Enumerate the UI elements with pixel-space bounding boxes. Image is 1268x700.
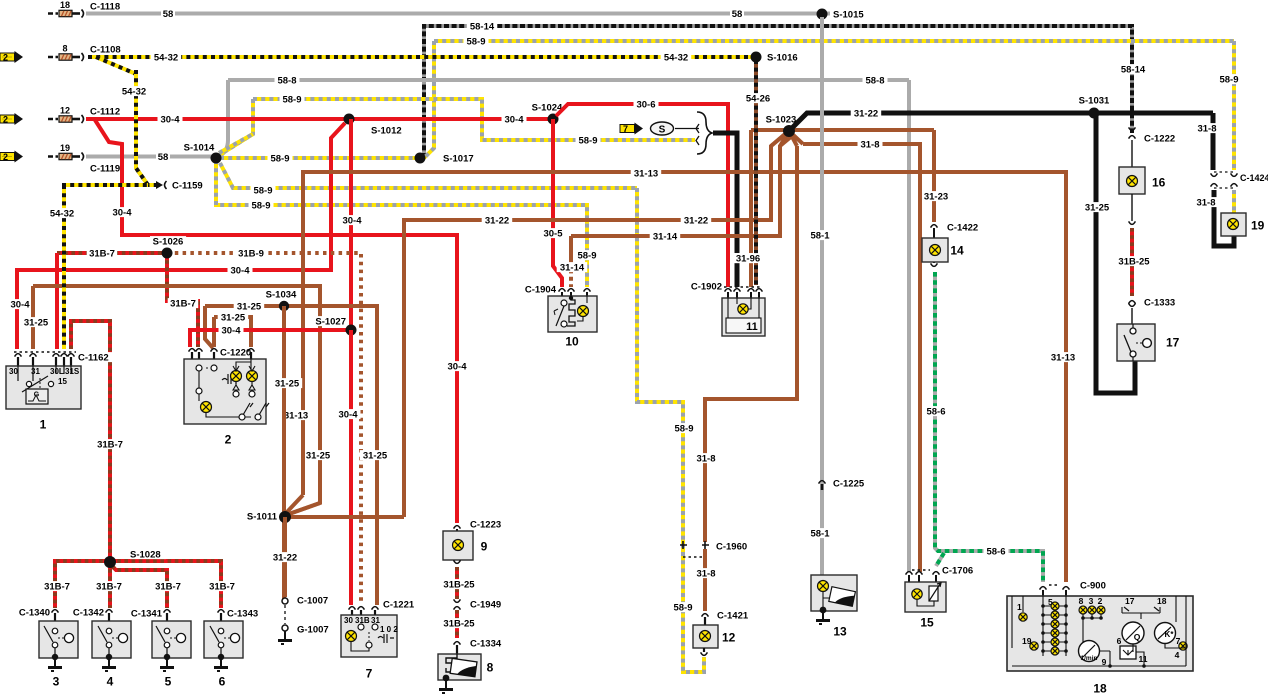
svg-text:58-9: 58-9 [674,423,693,434]
svg-text:31-13: 31-13 [1051,352,1075,363]
wire 31-22 below S-1011 to G-1007 [283,517,287,597]
lamp component 16 [1119,167,1145,194]
svg-text:31-14: 31-14 [653,231,678,242]
svg-text:19: 19 [60,143,70,153]
svg-text:58-1: 58-1 [810,528,830,539]
wire 54-26 S-1016 to component 11 pin4 [754,60,758,285]
splice S-1017 [415,153,426,164]
svg-text:58-6: 58-6 [986,546,1005,557]
lamp component 19 [1221,213,1246,236]
svg-text:58-8: 58-8 [277,75,296,86]
svg-text:9: 9 [481,539,488,553]
svg-text:31-25: 31-25 [363,450,388,461]
connector C-1343 [218,610,225,613]
svg-text:8: 8 [487,660,494,674]
connector C-1118 fuse 18 [48,12,58,15]
svg-text:C-1949: C-1949 [470,599,501,610]
wire 30-4 red main [86,117,556,121]
svg-text:S-1023: S-1023 [766,114,797,125]
sender S ellipse [651,122,674,135]
svg-text:K*: K* [1165,630,1175,639]
svg-text:12: 12 [60,106,70,116]
svg-text:54-32: 54-32 [122,86,146,97]
lighting switch component 2 [184,359,266,424]
svg-text:31-8: 31-8 [696,568,715,579]
svg-text:C-1422: C-1422 [947,222,978,233]
svg-text:C-1342: C-1342 [73,607,104,618]
wire 58-9 to component 10 (y205) [216,160,587,287]
svg-text:S-1034: S-1034 [266,289,297,300]
svg-text:2: 2 [1098,596,1103,606]
connector C-1341 [164,610,171,613]
svg-text:17: 17 [1125,596,1135,606]
svg-text:31B-7: 31B-7 [155,581,181,592]
wire 31-25 S-1031 to component 17 [1096,113,1135,393]
svg-text:S-1015: S-1015 [833,9,864,20]
wire 31B-7 red/brown row [57,251,167,255]
svg-text:31-22: 31-22 [684,215,708,226]
svg-text:58-9: 58-9 [1219,74,1238,85]
door switch component 3 [54,613,56,621]
page arrow 2 row2 [0,53,15,61]
svg-text:C-1960: C-1960 [716,541,747,552]
svg-text:1: 1 [1017,602,1022,612]
wire 31-14 to component 10 [571,136,792,236]
svg-text:10: 10 [565,334,579,348]
svg-text:S-1028: S-1028 [130,549,161,560]
svg-text:5: 5 [165,674,172,688]
svg-text:C-1341: C-1341 [131,608,163,619]
splice S-1024 [548,114,559,125]
svg-text:31B-7: 31B-7 [170,298,196,309]
svg-text:30-4: 30-4 [342,215,362,226]
svg-text:30-4: 30-4 [447,361,467,372]
svg-text:30-4: 30-4 [338,409,358,420]
wire 31-25 y286 [33,286,320,514]
instrument illumination component 13 [811,575,857,611]
svg-text:30-4: 30-4 [112,207,132,218]
svg-text:31-25: 31-25 [24,317,49,328]
door switch component 6 [220,613,222,621]
wire 31-25 y306 via S-1034 [205,306,377,605]
svg-text:31-8: 31-8 [860,139,879,150]
svg-text:4: 4 [107,674,114,688]
wire 58-6 green to component 15 and cluster [935,272,1043,582]
svg-text:C-1334: C-1334 [470,638,502,649]
svg-text:31-25: 31-25 [221,312,246,323]
splice S-1014 fan NE diagonal [219,134,253,153]
connector C-1902 [724,286,762,288]
wire 31-23 down to component 14 [932,130,936,222]
wire 58-1 gray S-1015 to component 13 [820,17,824,575]
svg-text:58-8: 58-8 [865,75,884,86]
svg-text:3: 3 [1089,596,1094,606]
wire 58 gray row4 [86,155,213,159]
svg-text:30L: 30L [50,367,64,376]
svg-text:58-9: 58-9 [253,185,272,196]
hazard switch component 7 [341,615,397,657]
connector C-1949 [454,599,461,602]
wire 31B-9 brown dashed to component 7 [167,253,361,605]
svg-text:6: 6 [1117,636,1122,646]
svg-text:C-1162: C-1162 [78,352,109,363]
wire 31B-25 component 16 to C-1333 [1131,194,1133,221]
wire 54-32 branch to C-1159 / C-1162 [96,57,160,185]
wire 31B-7 S-1026 to component 2 [167,253,198,347]
svg-text:58-9: 58-9 [282,94,301,105]
svg-text:C-1159: C-1159 [172,180,203,191]
svg-text:1/min: 1/min [1081,655,1098,662]
lamp component 14 [922,238,948,262]
wire 30-6 S-1024 to component 11 [556,104,728,287]
wire 31-8 S-1023 to C-1960/component 12 [705,146,797,542]
cluster tachometer 9 [1079,641,1100,662]
cluster gauge K 7 [1155,623,1176,644]
svg-text:19: 19 [1022,636,1032,646]
splice S-1028 [108,562,112,608]
wire 31-22 black from S-1023 to S-1031 [792,113,1213,128]
svg-text:1 0 2: 1 0 2 [380,625,398,634]
connector C-1960 [680,541,687,549]
cluster gauge Q 6 [1122,622,1144,644]
svg-text:30-4: 30-4 [230,265,250,276]
door switch component 4 [108,613,110,621]
svg-text:C-1221: C-1221 [383,599,415,610]
svg-text:58-6: 58-6 [926,406,945,417]
cluster regulator 11 [1120,646,1136,659]
svg-text:C-1119: C-1119 [90,163,120,174]
svg-text:31-22: 31-22 [485,215,509,226]
svg-text:31-13: 31-13 [634,168,658,179]
wire 31-8 black right to C-1424 and component 19 [1211,113,1216,170]
wire 58-9 to component 12 (y190) [220,163,637,188]
svg-text:18: 18 [1093,681,1107,695]
wire 31-25 bridge pins 3-4 of C-1220 [214,317,251,347]
splice S-1034 [279,301,289,311]
svg-text:58: 58 [158,152,169,163]
svg-text:19: 19 [1251,218,1265,232]
svg-text:31-22: 31-22 [273,552,297,563]
svg-text:30-4: 30-4 [221,325,241,336]
svg-text:S-1027: S-1027 [315,316,346,327]
svg-text:C-1333: C-1333 [1144,297,1175,308]
wire 58 gray top [86,12,830,16]
wire 58-8 gray [228,78,909,82]
svg-text:C-1902: C-1902 [691,281,722,292]
svg-text:31-14: 31-14 [560,262,585,273]
cluster lamp 4 [1179,642,1187,650]
wire 30-4 S-1027 down to component 7 pin1 [349,330,353,605]
svg-text:31B-25: 31B-25 [443,579,475,590]
svg-text:C-1007: C-1007 [297,595,328,606]
svg-text:S-1017: S-1017 [443,153,474,164]
svg-text:31-23: 31-23 [924,191,948,202]
instrument cluster component 18 [1007,596,1193,671]
wire 58-14 black/gray [424,26,1132,158]
svg-text:31-13: 31-13 [284,410,308,421]
svg-text:30: 30 [9,367,18,376]
svg-text:58-1: 58-1 [810,230,830,241]
wire 31B-7 down to C-1162 pin3 [55,253,59,349]
svg-text:31-8: 31-8 [1197,123,1216,134]
svg-text:6: 6 [219,674,226,688]
svg-text:58-9: 58-9 [577,250,596,261]
wire 31-22 brown big loop to S-1023 [404,134,785,517]
component 2 lamps [231,371,242,382]
svg-text:18: 18 [60,0,70,10]
svg-text:S-1026: S-1026 [153,236,184,247]
ground below component 8 [445,680,447,689]
svg-text:C-1225: C-1225 [833,478,865,489]
svg-text:3: 3 [53,674,60,688]
wire 31-96 horizontal through S-1023 and down to component 11 [751,128,934,132]
svg-text:58-9: 58-9 [251,200,270,211]
svg-text:31-96: 31-96 [736,253,760,264]
cluster lamp 1 [1019,613,1027,621]
lamp component 9 [443,531,473,560]
svg-text:54-32: 54-32 [50,208,74,219]
hazard flasher component 11 [722,298,765,336]
svg-text:58: 58 [163,9,174,20]
connector C-1119 fuse 19 [48,155,58,158]
connector C-1108 fuse 8 [48,56,58,59]
splice S-1014 fan east 58-9 [220,156,420,160]
svg-text:C-1118: C-1118 [90,1,120,12]
svg-text:1: 1 [40,417,47,431]
splice S-1015 [817,9,828,20]
svg-text:31-8: 31-8 [1196,197,1215,208]
cluster internal bus [1012,596,1186,666]
connector C-1904 [559,289,566,292]
svg-text:31B-7: 31B-7 [97,439,123,450]
svg-text:58-9: 58-9 [578,135,597,146]
splice S-1011 and fan [289,503,320,514]
svg-text:2: 2 [225,432,232,446]
connector C-1424 [1214,172,1236,188]
svg-text:58-9: 58-9 [673,602,692,613]
wire 58-9 right vertical to component 19 [1232,41,1236,170]
connector C-1159 [156,181,163,189]
svg-text:S-1014: S-1014 [184,142,215,153]
svg-text:15: 15 [920,615,934,629]
wire 30-4 S-1012 branch west leg [17,123,345,349]
svg-text:C-1220: C-1220 [220,347,251,358]
svg-text:31B-25: 31B-25 [443,618,475,629]
svg-text:C-1421: C-1421 [717,610,749,621]
svg-text:S: S [659,124,666,135]
svg-text:30-4: 30-4 [160,114,180,125]
svg-text:31-22: 31-22 [854,108,878,119]
lamp component 12 [693,625,718,648]
svg-text:31-25: 31-25 [1085,202,1110,213]
ignition switch component 1 [6,366,81,409]
wire S-1023 diagonals to 31-22 31-14 [771,131,789,146]
svg-text:12: 12 [722,630,736,644]
svg-text:31B-7: 31B-7 [96,581,122,592]
svg-text:15: 15 [58,377,67,386]
svg-text:7: 7 [366,666,373,680]
splice S-1031 [1089,108,1100,119]
svg-text:8: 8 [1079,596,1084,606]
svg-text:C-1108: C-1108 [90,44,121,55]
svg-text:13: 13 [833,624,847,638]
svg-text:58-14: 58-14 [470,21,495,32]
wire 30-5 S-1024 down to component 10 [553,119,562,287]
svg-text:4: 4 [1175,650,1180,660]
svg-text:C-1424: C-1424 [1240,173,1268,183]
ground below component 5 [166,658,168,667]
ground below component 4 [108,658,110,667]
splice S-1014 [211,153,222,164]
ground below component 3 [54,658,56,667]
wire 54-32 yellow/black [88,55,756,59]
connector C-1112 fuse 12 [48,118,58,121]
connector C-1334 [454,642,461,645]
svg-text:G-1007: G-1007 [297,624,329,635]
connector C-1007 [282,598,288,604]
switch component 17 [1117,324,1155,361]
connector C-900 [1049,584,1060,586]
wire 31-13 long brown [303,172,1066,582]
connector C-1221 [349,607,356,610]
svg-text:11: 11 [1139,654,1148,664]
svg-text:C-1706: C-1706 [942,565,973,576]
wire 31B-25 below component 9 [454,560,461,563]
svg-text:31S: 31S [65,367,80,376]
ground below component 6 [220,658,222,667]
svg-text:C-1343: C-1343 [227,608,258,619]
ground below component 13 [822,611,824,620]
connector C-1342 [106,610,113,613]
connector C-1333 [1129,301,1136,304]
wire 31-25 S-1034 down to S-1011 [282,306,286,600]
svg-text:30-4: 30-4 [10,299,30,310]
wire 58-9 yellow/gray top [434,39,1234,43]
svg-text:11: 11 [746,321,758,333]
svg-text:31B-7: 31B-7 [44,581,70,592]
connector C-1220 [189,349,196,352]
svg-text:31-8: 31-8 [696,453,715,464]
splice S-1016 [751,52,762,63]
cluster lamp 19 [1030,642,1038,650]
page arrow 2 row4 [0,153,15,161]
svg-text:S-1012: S-1012 [371,125,402,136]
ground G-1007 [282,625,288,631]
svg-text:18: 18 [1157,596,1167,606]
svg-text:C-1112: C-1112 [90,106,120,117]
page arrow 7 to sender [620,125,635,133]
wire 31B-7 loop from C-1162 pin5 down to S-1028 [71,321,110,562]
door switch component 5 [166,613,168,621]
svg-text:30-5: 30-5 [543,228,563,239]
wire 54-32 vertical overlay [136,70,148,185]
handbrake/brake warning component 10 [548,296,597,332]
connector C-1340 [52,610,59,613]
svg-text:C-1340: C-1340 [19,607,50,618]
svg-text:31B-9: 31B-9 [238,248,264,259]
svg-text:31B-25: 31B-25 [1118,256,1150,267]
page arrow 2 row3 [0,115,15,123]
svg-text:C-1223: C-1223 [470,519,501,530]
connector C-1422 [931,225,938,228]
wire 31-8 S-1023 to component 15 [789,131,803,144]
connector C-1222 [1129,136,1136,139]
svg-text:30-6: 30-6 [636,99,655,110]
svg-text:58-14: 58-14 [1121,64,1146,75]
wire 31-8 C-1960 to C-1421 [703,549,707,611]
svg-text:C-1904: C-1904 [525,284,557,295]
wire 58-8 right vertical down to component 15 [907,80,911,572]
svg-text:58-9: 58-9 [270,153,289,164]
wire 30-4 branch to fuse box feed [95,120,457,523]
svg-text:58: 58 [732,9,743,20]
svg-text:31B-7: 31B-7 [209,581,235,592]
svg-text:8: 8 [62,44,67,54]
splice S-1012 [344,114,355,125]
splice S-1027 [346,325,357,336]
splice S-1023 [783,125,795,137]
fuel pump component 8 [438,654,481,680]
svg-text:31-25: 31-25 [237,301,262,312]
svg-text:54-32: 54-32 [154,52,178,63]
svg-text:31-25: 31-25 [306,450,331,461]
svg-text:C-1222: C-1222 [1144,133,1175,144]
svg-text:7: 7 [623,124,628,134]
sender arrow line [675,124,699,133]
svg-text:30: 30 [344,616,353,625]
svg-text:58-9: 58-9 [466,36,485,47]
svg-text:S-1031: S-1031 [1079,95,1110,106]
connector C-1223 [454,526,461,529]
wire 30-4 S-1027 to component 2 pin1 [190,330,351,347]
svg-text:16: 16 [1152,175,1166,189]
svg-text:Q: Q [1134,632,1141,642]
instrument lighting rheostat component 15 [905,582,946,612]
svg-text:31B-7: 31B-7 [89,248,115,259]
svg-text:31B: 31B [355,616,370,625]
svg-text:S-1011: S-1011 [247,511,278,522]
wire black sender output to component 11 [713,133,737,287]
connector C-1421 [702,614,709,617]
connector C-1162 [14,351,76,353]
label 31-96 overlay [733,253,764,263]
svg-text:54-32: 54-32 [664,52,688,63]
svg-text:30-4: 30-4 [504,114,524,125]
svg-text:S-1016: S-1016 [767,52,798,63]
wire 58-9 second row [253,99,695,140]
wire 30-4 S-1012 down to S-1027 [349,119,353,330]
svg-text:14: 14 [950,243,964,257]
svg-text:17: 17 [1166,335,1180,349]
svg-text:31-25: 31-25 [275,378,300,389]
curly brace collector [697,112,712,154]
connector C-1706 [912,569,930,571]
svg-text:54-26: 54-26 [746,93,770,104]
svg-text:C-900: C-900 [1080,580,1106,591]
connector C-1225 [819,481,826,484]
